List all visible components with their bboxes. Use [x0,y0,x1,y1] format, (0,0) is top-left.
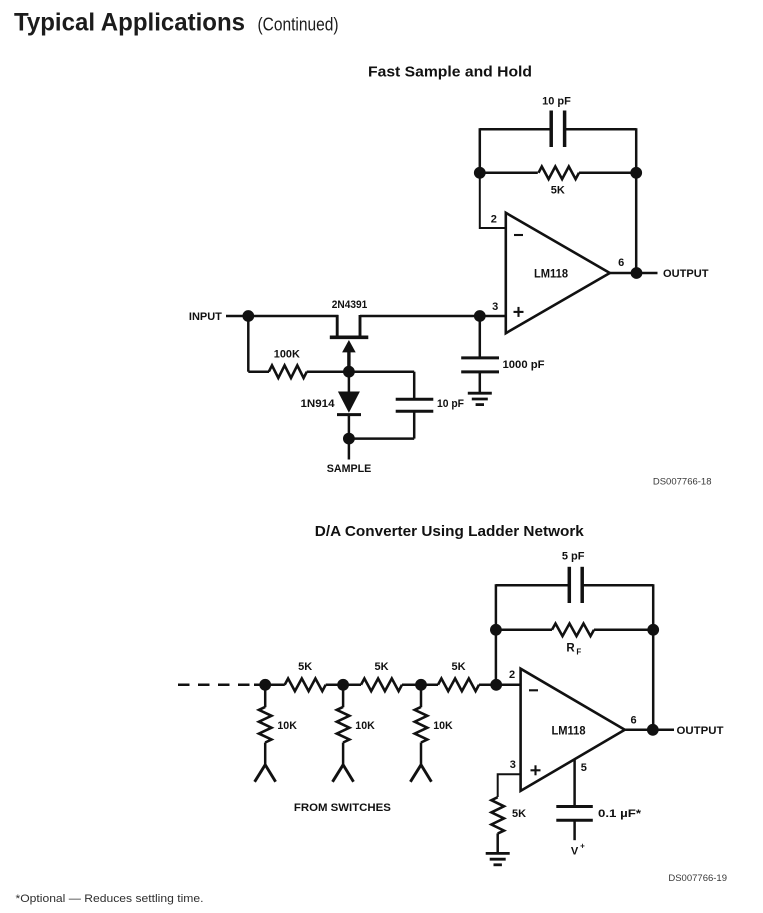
wire feedback2 right drop [652,584,655,630]
svg-text:Typical Applications: Typical Applications [14,9,245,37]
svg-text:LM118: LM118 [534,266,568,280]
node ladder junction 3 [415,679,427,691]
node gate junction [343,366,355,378]
switch legs 3 [410,765,421,782]
svg-text:(Continued): (Continued) [258,15,339,35]
op-amp U2 minus sign [529,689,538,691]
wire pin 3 lead (U2) [498,774,521,797]
wire feedback2 top left [496,584,569,587]
wire ladder seg 1 [254,684,285,687]
svg-text:R: R [566,643,575,655]
svg-text:INPUT: INPUT [189,311,222,323]
wire ladder seg 3 [402,684,438,687]
svg-text:SAMPLE: SAMPLE [327,463,372,475]
wire 100K to gate node [307,370,349,373]
wire feedback2 to summing node [495,630,498,685]
node summing junction [490,679,502,691]
wire input right to pin 3 [360,315,506,318]
ground GND2 [486,852,510,855]
wire feedback top right [565,128,637,131]
svg-text:6: 6 [630,715,636,727]
node junction RF left [490,624,502,636]
switch legs 2 [333,765,344,782]
diode D1 1N914 [338,392,360,413]
wire ladder seg 4 [479,684,521,687]
wire RF row left [496,629,552,632]
op-amp U1 minus sign [514,234,523,236]
svg-text:FROM SWITCHES: FROM SWITCHES [294,802,391,814]
resistor R4 5K [361,679,402,692]
op-amp U1 LM118 [506,213,610,333]
wire R9 to ground [496,833,499,852]
switch legs 1 [255,765,266,782]
svg-text:2N4391: 2N4391 [332,299,368,311]
wire input junction drop [247,316,250,372]
wire diode to sample node [348,415,351,439]
svg-text:5K: 5K [298,661,312,673]
wire feedback left drop [479,128,482,173]
svg-text:5K: 5K [451,661,465,673]
svg-text:10K: 10K [277,720,297,732]
wire feedback right vertical [635,173,638,273]
svg-text:*Optional — Reduces settling t: *Optional — Reduces settling time. [16,893,204,905]
svg-text:Fast Sample and Hold: Fast Sample and Hold [368,64,532,81]
resistor R5 5K [438,679,479,692]
svg-text:100K: 100K [274,348,300,360]
svg-text:6: 6 [618,257,624,269]
capacitor C1 10 pF [549,111,553,148]
op-amp U2 LM118 [521,669,625,791]
capacitor C3 10 pF [396,398,434,401]
wire gate node to diode [348,372,351,392]
capacitor C2 1000 pF [461,356,499,359]
svg-text:D/A Converter Using Ladder Net: D/A Converter Using Ladder Network [315,523,585,540]
svg-text:1N914: 1N914 [301,398,336,410]
wire output 2 [625,729,674,732]
wire input left [226,315,338,318]
svg-text:10 pF: 10 pF [542,96,571,108]
svg-text:DS007766-19: DS007766-19 [668,873,727,884]
node pin 3 junction [474,310,486,322]
wire feedback2 top right [582,584,653,587]
svg-text:10K: 10K [433,720,453,732]
wire pin 3 node to C2 [479,316,482,358]
svg-text:5K: 5K [551,185,565,197]
wire output [610,272,658,275]
svg-text:2: 2 [491,213,497,225]
node junction RF right [647,624,659,636]
svg-text:1000 pF: 1000 pF [503,359,545,371]
wire RF row right [594,629,653,632]
node ladder junction 2 [337,679,349,691]
node junction left feedback [474,167,486,179]
node output junction 2 [647,724,659,736]
wire feedback top left [480,128,552,131]
svg-text:OUTPUT: OUTPUT [663,268,709,280]
svg-text:10K: 10K [355,720,375,732]
svg-text:3: 3 [510,759,516,771]
wire pin 2 lead [480,173,506,228]
wire feedback2 right vertical [652,630,655,730]
resistor R8 10K [420,685,423,707]
wire ladder seg 2 [326,684,361,687]
node output junction [631,267,643,279]
wire C5 to V+ [573,820,576,840]
wire C2 to ground [479,372,482,392]
op-amp U2 plus sign [531,769,541,771]
svg-text:DS007766-18: DS007766-18 [653,477,712,488]
svg-text:2: 2 [509,669,515,681]
node junction right feedback [630,167,642,179]
wire resistor row left [480,172,538,175]
resistor R6 10K [264,685,267,707]
svg-text:5K: 5K [512,808,526,820]
wire resistor row right [579,172,636,175]
op-amp U1 plus sign [514,311,524,313]
capacitor C4 5 pF [568,567,572,603]
ground GND1 [468,392,492,395]
wire pin 5 lead [573,760,576,807]
svg-text:+: + [580,841,585,850]
wire C3 bottom to sample node [413,411,416,438]
svg-text:0.1 µF*: 0.1 µF* [598,808,642,820]
svg-text:OUTPUT: OUTPUT [677,725,724,737]
resistor R9 5K [491,797,504,833]
wire feedback right drop [635,128,638,173]
svg-text:3: 3 [492,301,498,313]
resistor R1 5K [539,167,580,180]
svg-text:LM118: LM118 [552,723,586,737]
node input junction [242,310,254,322]
wire ladder dashed input [178,684,254,687]
wire gate node to C3 top [349,370,414,373]
svg-text:10 pF: 10 pF [437,398,464,410]
resistor R3 5K [285,679,326,692]
resistor RF [552,624,594,637]
svg-text:5K: 5K [374,661,388,673]
wire feedback2 left drop [495,584,498,630]
capacitor C5 0.1 uF [556,805,593,808]
svg-text:V: V [571,845,579,857]
svg-text:F: F [576,648,581,657]
wire to 100K [248,370,269,373]
resistor R2 100K [269,365,307,378]
transistor Q1 2N4391 [336,315,339,337]
node sample junction [343,433,355,445]
svg-text:5: 5 [581,762,587,774]
svg-text:5 pF: 5 pF [562,551,585,563]
wire sample lead [348,439,351,460]
node ladder junction 1 [259,679,271,691]
resistor R7 10K [342,685,345,707]
